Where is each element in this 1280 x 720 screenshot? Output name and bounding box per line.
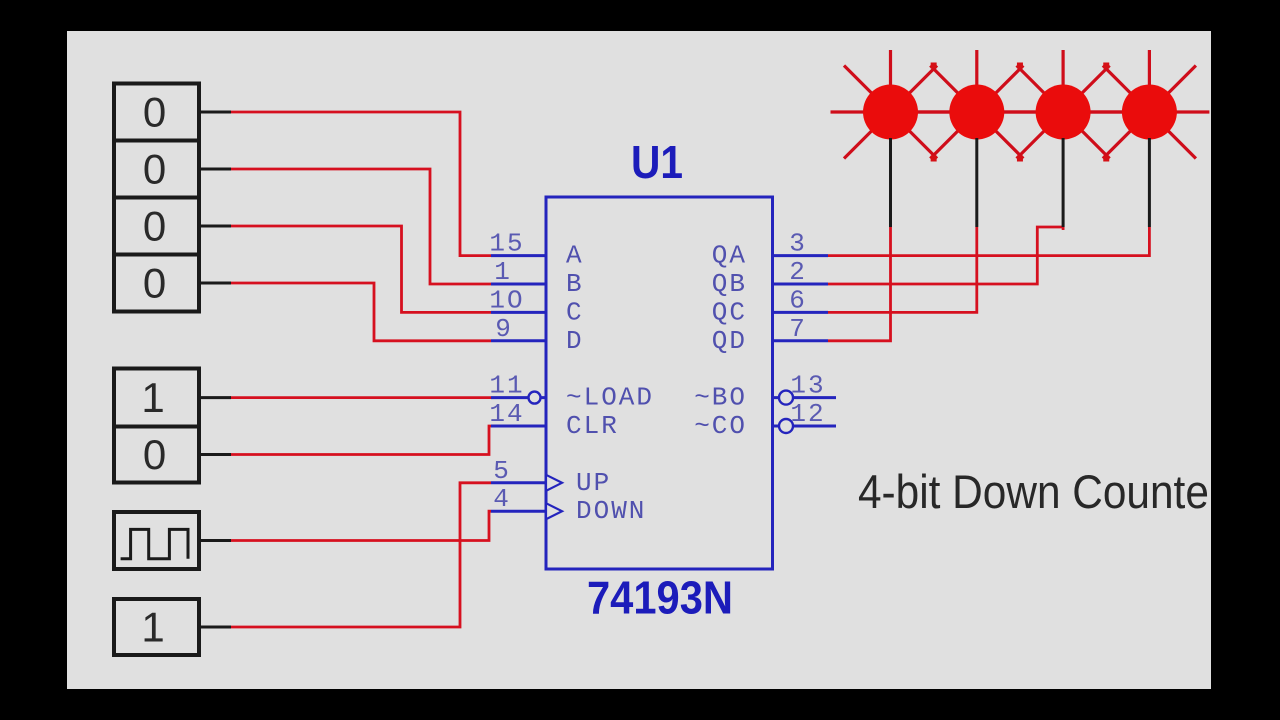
svg-text:13: 13 [790,371,825,401]
pin 12 stub (~CO) [773,425,837,428]
svg-text:15: 15 [489,229,524,259]
svg-text:~LOAD: ~LOAD [566,383,654,413]
wire W3: box3 to pin C(10) [230,226,491,312]
pin 3 stub (QA) [773,254,829,257]
svg-text:1O: 1O [489,285,524,315]
wire W2: box2 to pin B(1) [230,169,491,284]
LED X3 rays [1003,50,1123,159]
terminal stub S6 [199,453,231,456]
svg-text:4: 4 [493,484,511,514]
svg-text:11: 11 [489,371,524,401]
terminal stub clock source [199,539,231,542]
wire W5: box5 to ~LOAD(11) [230,396,491,399]
LED X2 rays [917,50,1037,159]
svg-text:U1: U1 [631,136,683,188]
terminal stub S1 [199,111,231,114]
svg-text:0: 0 [143,260,166,307]
LED X1 lead (black) [889,138,892,227]
inversion bubble pin 12 [779,419,793,433]
svg-text:0: 0 [143,203,166,250]
svg-text:7: 7 [789,314,807,344]
wire QA to LED4 [828,227,1149,256]
letterbox bars [0,0,1280,31]
svg-text:5: 5 [493,456,511,486]
svg-text:0: 0 [143,431,166,478]
svg-text:~CO: ~CO [694,411,747,441]
pin 9 stub (D) [491,339,546,342]
svg-text:~BO: ~BO [694,383,747,413]
clock wedge UP pin 5 [546,475,562,491]
pin 6 stub (QC) [773,311,829,314]
svg-text:QA: QA [712,241,747,271]
svg-text:9: 9 [495,314,513,344]
svg-text:1: 1 [494,257,512,287]
wire W1: box1 to pin A(15) [230,112,491,256]
wire W8: box8 to UP(5) [230,483,491,627]
svg-text:QD: QD [712,326,747,356]
pin 1 stub (B) [491,283,546,286]
wire W4: box4 to pin D(9) [230,283,491,341]
svg-text:B: B [566,269,584,299]
LED X4 lead (black) [1148,138,1151,227]
svg-text:2: 2 [789,257,807,287]
pin 13 stub (~BO) [773,396,837,399]
pin 14 stub (CLR) [491,425,546,428]
LED X4 rays [1089,50,1209,159]
svg-text:74193N: 74193N [587,572,733,624]
wire W6: box6 to CLR(14) [230,426,491,455]
pin 7 stub (QD) [773,339,829,342]
svg-text:0: 0 [143,146,166,193]
terminal stub S4 [199,282,231,285]
svg-text:DOWN: DOWN [576,496,646,526]
svg-text:6: 6 [789,285,807,315]
digit box S2 value 0 [114,141,199,198]
svg-text:3: 3 [789,229,807,259]
pin 2 stub (QB) [773,283,829,286]
clock waveform [121,529,188,558]
op chip body U1 74193N [546,197,773,569]
LED X4 body [1122,85,1177,140]
digit box S3 value 0 [114,198,199,255]
svg-text:1: 1 [141,374,164,421]
wire QD to LED1 [828,227,891,341]
svg-text:0: 0 [143,89,166,136]
svg-text:4-bit Down Counter: 4-bit Down Counter [858,465,1223,518]
inversion bubble pin 11 [529,392,541,404]
LED X1 rays [831,50,951,159]
pin 4 stub (DOWN) [491,510,546,513]
LED3 red drop [1062,227,1065,230]
terminal stub S5 [199,396,231,399]
clock source box [114,512,199,569]
terminal stub S3 [199,225,231,228]
svg-text:QC: QC [712,297,747,327]
digit box S5 value 1 [114,369,199,427]
svg-text:CLR: CLR [566,411,619,441]
pin 5 stub (UP) [491,481,546,484]
wire W7: clock to DOWN(4) [230,511,491,540]
svg-text:C: C [566,297,584,327]
pin 10 stub (C) [491,311,546,314]
digit box S1 value 0 [114,84,199,141]
svg-text:UP: UP [576,468,611,498]
svg-text:QB: QB [712,269,747,299]
svg-text:14: 14 [489,399,524,429]
clock wedge DOWN pin 4 [546,503,562,519]
digit box S8 value 1 [114,599,199,655]
svg-text:12: 12 [790,399,825,429]
svg-text:D: D [566,326,584,356]
digit box S4 value 0 [114,255,199,312]
LED X3 lead (black) [1062,138,1065,227]
LED ray crossing dots [931,63,937,69]
pin 15 stub (A) [491,254,546,257]
wire QB to LED3 [828,227,1063,284]
pin 11 stub (~LOAD) [491,396,546,399]
svg-text:1: 1 [141,604,164,651]
wire QC to LED2 [828,227,977,312]
LED X2 lead (black) [975,138,978,227]
inversion bubble pin 13 [779,391,793,405]
LED X3 body [1036,85,1091,140]
digit box S6 value 0 [114,427,199,483]
LED X1 body [863,85,918,140]
LED X2 body [949,85,1004,140]
terminal stub S8 [199,626,231,629]
svg-text:A: A [566,241,584,271]
terminal stub S2 [199,168,231,171]
